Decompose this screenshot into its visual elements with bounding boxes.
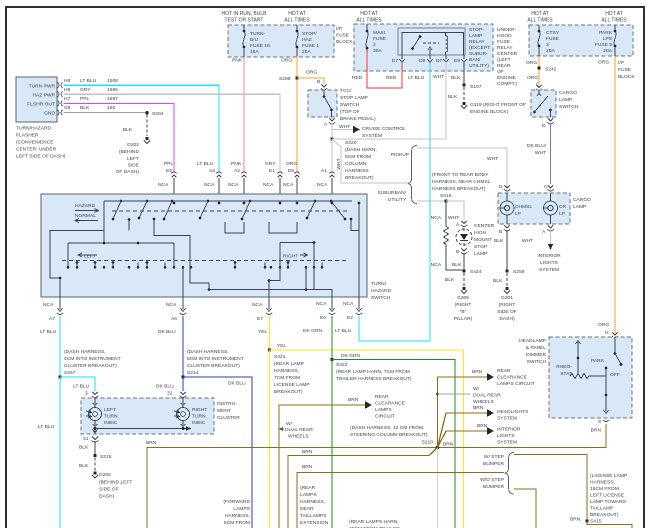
- wire BLK lamp B to S424: [463, 253, 465, 271]
- svg-text:RIGHT: RIGHT: [283, 254, 298, 260]
- I/P fuse block box (left): [228, 25, 334, 57]
- switch top connector A3: [197, 161, 222, 203]
- headlamp switch rheostat arm: [576, 341, 581, 375]
- svg-text:REAR: REAR: [497, 63, 511, 69]
- instrument cluster label: [217, 401, 240, 421]
- wire WHT S220 down to switch pin A1: [331, 139, 333, 173]
- svg-text:CENTER: CENTER: [497, 51, 518, 57]
- connector B of center lamp: [461, 249, 467, 255]
- annotation w/ dual rear wheels left: [285, 421, 313, 440]
- svg-text:(BEHIND: (BEHIND: [119, 149, 140, 155]
- svg-text:E2: E2: [347, 315, 353, 321]
- wire DK BLU A6 to S214: [182, 316, 184, 377]
- svg-text:PPL: PPL: [80, 96, 90, 102]
- svg-text:31: 31: [83, 436, 89, 442]
- svg-text:S215: S215: [100, 454, 112, 460]
- header HOT IN RUN label: [222, 11, 628, 24]
- stop lamp relay U1: [398, 28, 465, 55]
- svg-text:CENTER: CENTER: [474, 223, 495, 229]
- svg-text:SYSTEM: SYSTEM: [362, 133, 382, 139]
- hazard direction arrow: [75, 209, 99, 213]
- svg-text:BLK: BLK: [448, 94, 458, 100]
- svg-text:BUMPER: BUMPER: [483, 461, 504, 467]
- node S215: [93, 454, 96, 457]
- svg-text:(REAR LAMP: (REAR LAMP: [274, 361, 304, 367]
- svg-text:LT BLU: LT BLU: [197, 161, 214, 167]
- svg-text:BRN: BRN: [477, 423, 488, 429]
- wire BRN from S415 to license lamps: [587, 521, 632, 528]
- svg-text:WHT: WHT: [522, 238, 533, 244]
- switch internal contact stubs: [76, 261, 322, 267]
- cargo lamp switch: [531, 90, 556, 117]
- switch bottom pin A6: [158, 297, 186, 335]
- svg-text:NCA: NCA: [43, 302, 54, 308]
- svg-text:SIDE OF: SIDE OF: [99, 487, 119, 493]
- label S422: [336, 362, 412, 382]
- svg-text:NCA: NCA: [316, 301, 327, 307]
- svg-text:HOOD: HOOD: [497, 33, 512, 39]
- flasher label: [16, 126, 66, 160]
- svg-text:S424: S424: [470, 269, 482, 275]
- svg-text:B: B: [499, 229, 502, 235]
- switch top connector E1: [263, 161, 283, 203]
- ground G202 lower: [93, 471, 96, 474]
- svg-text:G202: G202: [127, 142, 139, 148]
- switch bottom pin E7: [252, 297, 272, 335]
- svg-text:LT BLU: LT BLU: [335, 328, 352, 334]
- wire BLK dashed to G202: [146, 115, 148, 137]
- label dash harness S267: [64, 349, 121, 376]
- svg-text:S421: S421: [274, 354, 286, 360]
- wire YEL down: [269, 350, 271, 528]
- svg-text:NCA: NCA: [252, 302, 263, 308]
- turn/hazard switch assembly box: [41, 194, 367, 297]
- svg-text:ALL TIMES: ALL TIMES: [527, 18, 553, 24]
- svg-text:LIGHTS: LIGHTS: [497, 433, 515, 439]
- svg-text:CR: CR: [559, 204, 567, 210]
- svg-text:(FORWARD: (FORWARD: [223, 499, 250, 505]
- lamp CHMSL LP: [500, 201, 514, 215]
- switch internal blade 2: [138, 200, 149, 220]
- svg-text:(TOP OF: (TOP OF: [340, 109, 360, 115]
- turn/hazard switch label: [371, 281, 392, 301]
- svg-text:YEL: YEL: [277, 343, 287, 349]
- svg-text:RELAY: RELAY: [469, 39, 485, 45]
- svg-text:CLUSTER BREAKOUT): CLUSTER BREAKOUT): [187, 363, 240, 369]
- svg-text:WHT: WHT: [433, 74, 444, 80]
- svg-text:D9: D9: [419, 58, 426, 64]
- svg-text:15CM FROM: 15CM FROM: [590, 486, 619, 492]
- svg-text:INDIC: INDIC: [104, 420, 118, 426]
- svg-text:STOP LAMP: STOP LAMP: [340, 95, 368, 101]
- connector S below headlamp switch: [603, 420, 609, 422]
- svg-text:PNK: PNK: [232, 58, 243, 64]
- wire DK BLU to cluster pin 32: [182, 377, 184, 391]
- svg-text:W/ STEP: W/ STEP: [484, 454, 504, 460]
- svg-text:7CM FROM: 7CM FROM: [274, 375, 300, 381]
- node S210: [436, 446, 440, 450]
- svg-text:DK BLU: DK BLU: [156, 384, 174, 390]
- svg-text:(REAR LAMPS HARN,: (REAR LAMPS HARN,: [349, 519, 399, 525]
- underhood fuse relay center box: [354, 24, 493, 71]
- svg-text:CARGO: CARGO: [573, 197, 591, 203]
- wire PPL flasher to E9: [64, 103, 175, 172]
- svg-text:HARNESS,: HARNESS,: [274, 368, 299, 374]
- wire BRN w/step bumper to S415: [514, 455, 587, 522]
- svg-text:S299: S299: [279, 76, 291, 82]
- wire LT BLU A7 to S267: [59, 316, 61, 377]
- svg-text:HARNESS,: HARNESS,: [225, 513, 250, 519]
- wire BRN S210 branch to rear lamps harness: [288, 448, 438, 528]
- svg-text:BLK: BLK: [79, 445, 89, 451]
- svg-text:BLK: BLK: [123, 127, 133, 133]
- svg-text:32: 32: [167, 391, 173, 397]
- svg-text:RHEO-: RHEO-: [556, 364, 572, 370]
- fuse F1 STOP/HAZ: [296, 25, 320, 56]
- wire BLK relay E9 to S107: [463, 63, 465, 85]
- svg-text:COMPT.): COMPT.): [497, 81, 517, 87]
- node S415: [585, 519, 588, 522]
- svg-text:EXTENSION: EXTENSION: [300, 520, 329, 526]
- svg-text:S242: S242: [545, 67, 557, 73]
- switch internal right bus: [280, 243, 314, 268]
- svg-text:G202: G202: [99, 472, 111, 478]
- wire ORG from CTSY fuse: [538, 56, 540, 84]
- svg-text:OF DASH): OF DASH): [116, 169, 140, 175]
- svg-text:20A: 20A: [603, 48, 612, 54]
- svg-text:W/: W/: [473, 386, 480, 392]
- svg-text:PILLAR): PILLAR): [454, 316, 473, 322]
- connector cluster pin 3: [92, 392, 98, 398]
- svg-text:I/P: I/P: [618, 60, 624, 66]
- svg-text:ORG: ORG: [286, 161, 297, 167]
- svg-text:G305: G305: [457, 295, 469, 301]
- svg-text:(CONVENIENCE: (CONVENIENCE: [16, 140, 54, 146]
- svg-text:BRN: BRN: [146, 440, 157, 446]
- switch pin contact dots: [173, 202, 334, 205]
- svg-text:SIDE OF: SIDE OF: [497, 309, 517, 315]
- svg-text:ORG: ORG: [306, 70, 317, 76]
- switch internal A6 drop: [182, 267, 184, 297]
- pin H9 connector: [58, 83, 63, 89]
- svg-text:SYSTEM: SYSTEM: [497, 440, 517, 446]
- wire BRN rear clearance left riser: [279, 405, 366, 528]
- switch internal blade 5: [241, 200, 252, 221]
- svg-text:& PANEL: & PANEL: [526, 345, 547, 351]
- switch internal blade 4: [199, 200, 210, 220]
- svg-text:LT BLU: LT BLU: [80, 78, 97, 84]
- svg-text:BLK: BLK: [445, 277, 455, 283]
- connector cluster pin 32: [180, 392, 186, 398]
- switch internal link 129: [128, 220, 130, 231]
- svg-text:INTERIOR: INTERIOR: [537, 253, 561, 259]
- svg-text:HAZ PWR: HAZ PWR: [32, 93, 55, 99]
- label S210: [350, 425, 433, 446]
- relay pin arrows E7 D9 D7 E9: [400, 55, 467, 63]
- svg-text:B: B: [317, 79, 320, 85]
- svg-text:A1: A1: [321, 168, 327, 174]
- svg-text:TRAILER HARNESS BREAKOUT): TRAILER HARNESS BREAKOUT): [336, 376, 412, 382]
- wire labels row H7: [64, 96, 118, 102]
- svg-text:UTILITY): UTILITY): [469, 63, 489, 69]
- lamp CR LP: [544, 201, 558, 215]
- svg-text:LT BLU: LT BLU: [73, 384, 90, 390]
- svg-text:D7: D7: [436, 58, 443, 64]
- svg-text:ALL TIMES: ALL TIMES: [601, 18, 627, 24]
- svg-text:15A: 15A: [250, 49, 259, 55]
- svg-text:WHEELS: WHEELS: [473, 399, 494, 405]
- svg-text:RIGHT: RIGHT: [192, 407, 207, 413]
- wire thin lead below S210: [437, 448, 439, 528]
- svg-text:B/U: B/U: [250, 37, 259, 43]
- svg-text:S419: S419: [440, 193, 452, 199]
- svg-text:COLUMN: COLUMN: [345, 161, 367, 167]
- label dash harness S214: [187, 349, 244, 376]
- svg-text:H: H: [605, 330, 609, 336]
- svg-text:BRN: BRN: [473, 405, 484, 411]
- fuse F16 TURN-B/U: [243, 25, 270, 57]
- wire BLK dashed to G202: [94, 458, 96, 471]
- svg-text:LT BLU: LT BLU: [38, 424, 55, 430]
- svg-text:WHT: WHT: [535, 150, 546, 156]
- svg-text:YEL: YEL: [258, 329, 268, 335]
- svg-text:(EXCEPT: (EXCEPT: [469, 45, 490, 51]
- svg-text:PNK: PNK: [231, 161, 242, 167]
- svg-text:BLK: BLK: [451, 75, 461, 81]
- svg-text:SYSTEM: SYSTEM: [497, 416, 517, 422]
- node S214: [181, 375, 184, 378]
- instrument cluster box: [81, 398, 214, 434]
- svg-text:RELAY: RELAY: [497, 45, 513, 51]
- svg-text:150: 150: [107, 105, 115, 111]
- wire WHT S419 to CHMSL A: [446, 201, 464, 220]
- switch bottom pin E6: [303, 297, 335, 334]
- svg-text:ORG: ORG: [281, 58, 292, 64]
- label rear lamps harn 25cm: [349, 519, 400, 528]
- label rear lamps harness near taillamps: [300, 485, 329, 528]
- svg-text:SUBUR-: SUBUR-: [469, 51, 488, 57]
- svg-text:LAMP TOWARD: LAMP TOWARD: [590, 499, 626, 505]
- svg-text:S107: S107: [470, 84, 482, 90]
- TCC stop lamp switch: [308, 90, 337, 117]
- svg-text:PICKUP: PICKUP: [391, 152, 409, 158]
- svg-text:DUAL REAR: DUAL REAR: [285, 427, 313, 433]
- svg-text:E7: E7: [257, 316, 263, 322]
- svg-text:NCA: NCA: [343, 301, 354, 307]
- svg-text:FUSE: FUSE: [546, 36, 560, 42]
- svg-text:FLASHER: FLASHER: [16, 133, 39, 139]
- svg-text:BLK: BLK: [79, 463, 89, 469]
- svg-text:D: D: [542, 123, 546, 129]
- wire LT BLU relay D9 down: [429, 63, 431, 341]
- svg-text:ORG: ORG: [598, 60, 609, 66]
- svg-text:BREAKOUT): BREAKOUT): [590, 512, 619, 518]
- svg-text:LIGHTS: LIGHTS: [540, 260, 558, 266]
- svg-text:(LEFT: (LEFT: [497, 57, 511, 63]
- svg-text:OFF: OFF: [610, 372, 620, 378]
- svg-text:GND: GND: [44, 111, 55, 117]
- svg-text:W/: W/: [286, 421, 293, 427]
- svg-text:3: 3: [85, 391, 88, 397]
- svg-text:(REAR LAMP HARN, 7CM FROM: (REAR LAMP HARN, 7CM FROM: [336, 369, 410, 375]
- switch internal E7 drop: [269, 267, 280, 297]
- switch internal mid routing: [154, 219, 209, 290]
- svg-text:8CM INTO INSTRUMENT: 8CM INTO INSTRUMENT: [187, 356, 244, 362]
- svg-text:WHT: WHT: [448, 215, 459, 221]
- svg-text:(LICENSE LAMP: (LICENSE LAMP: [590, 473, 627, 479]
- svg-text:LT BLU: LT BLU: [40, 329, 57, 335]
- svg-text:MENT: MENT: [217, 408, 231, 414]
- svg-text:E6: E6: [320, 315, 326, 321]
- svg-text:SWITCH: SWITCH: [340, 102, 360, 108]
- svg-text:BRAKE PEDAL): BRAKE PEDAL): [340, 116, 376, 122]
- svg-text:BRN: BRN: [472, 369, 483, 375]
- svg-text:CHMSL: CHMSL: [515, 204, 532, 210]
- svg-text:NCA: NCA: [263, 182, 274, 188]
- wire RED maxi fuse to relay E7: [367, 51, 402, 88]
- svg-text:LP: LP: [515, 211, 521, 217]
- switch internal risers right: [306, 267, 314, 289]
- wire BLK flasher to S204: [64, 112, 148, 114]
- svg-text:G201: G201: [501, 295, 513, 301]
- svg-text:HARNESS,: HARNESS,: [590, 480, 615, 486]
- label license lamp harness S415: [590, 473, 627, 525]
- svg-text:LEFT: LEFT: [104, 407, 116, 413]
- svg-text:LAMPS: LAMPS: [300, 492, 317, 498]
- wire BRN S210 to headlights system: [438, 413, 489, 448]
- svg-text:I/P: I/P: [336, 26, 342, 32]
- node S424: [462, 269, 465, 272]
- node S421: [268, 348, 271, 351]
- svg-text:HIGH: HIGH: [474, 230, 487, 236]
- svg-text:BAN/: BAN/: [469, 57, 481, 63]
- svg-text:DK BLU/: DK BLU/: [527, 143, 547, 149]
- svg-text:SWITCH: SWITCH: [559, 104, 579, 110]
- svg-text:G119 (RIGHT FRONT OF: G119 (RIGHT FRONT OF: [470, 102, 526, 108]
- svg-text:DK BLU: DK BLU: [158, 329, 176, 335]
- svg-text:BLK: BLK: [80, 105, 90, 111]
- wire labels row H8: [64, 87, 118, 93]
- rheostat resistor: [570, 374, 606, 379]
- node S259: [505, 269, 508, 272]
- wire BLK dashed to G305: [463, 273, 465, 286]
- svg-text:PPL: PPL: [164, 161, 174, 167]
- switch internal dashed coupler row 2: [62, 260, 348, 262]
- svg-text:DK BLU: DK BLU: [228, 381, 246, 387]
- svg-text:HOT AT: HOT AT: [605, 11, 623, 17]
- brace pickup/suburban: [408, 146, 418, 204]
- svg-text:HOT IN RUN, BULB: HOT IN RUN, BULB: [222, 11, 268, 17]
- svg-text:(FRONT TO REAR BODY: (FRONT TO REAR BODY: [432, 172, 489, 178]
- svg-text:SWITCH: SWITCH: [371, 295, 391, 301]
- svg-text:MOUNT: MOUNT: [474, 237, 492, 243]
- svg-text:TAILLAMPS: TAILLAMPS: [300, 513, 327, 519]
- switch internal riser x104: [103, 201, 105, 243]
- fuse F3 CTSY: [538, 25, 560, 56]
- svg-text:INSTRU-: INSTRU-: [217, 401, 237, 407]
- svg-text:CIRCUIT: CIRCUIT: [375, 414, 395, 420]
- connector C cargo switch: [536, 85, 542, 91]
- svg-text:(DASH HARNESS,: (DASH HARNESS,: [64, 349, 106, 355]
- switch top connector E8: [283, 161, 300, 203]
- svg-text:STOP-: STOP-: [469, 27, 484, 33]
- svg-text:5CM FROM: 5CM FROM: [224, 520, 250, 526]
- svg-text:BREAKOUT): BREAKOUT): [274, 389, 303, 395]
- svg-text:LP: LP: [559, 211, 565, 217]
- svg-text:H8: H8: [64, 87, 71, 93]
- svg-text:DASH): DASH): [499, 316, 515, 322]
- switch internal blade 1: [112, 200, 123, 221]
- wire WHT to interior lights system: [550, 230, 552, 244]
- svg-text:GRY: GRY: [80, 87, 91, 93]
- svg-text:LEFT LICENSE: LEFT LICENSE: [590, 493, 625, 499]
- switch internal blade 6: [306, 200, 317, 220]
- svg-text:ORG: ORG: [526, 60, 537, 66]
- svg-text:GRY: GRY: [265, 161, 276, 167]
- wire LT BLU flasher to A3: [64, 85, 220, 172]
- svg-text:(DASH HARNESS, 12 CM FROM: (DASH HARNESS, 12 CM FROM: [350, 425, 423, 431]
- connector A of TCC switch: [329, 119, 335, 125]
- svg-text:TURN/: TURN/: [371, 281, 387, 287]
- svg-text:NEAR: NEAR: [300, 506, 314, 512]
- svg-text:BRN: BRN: [570, 517, 581, 523]
- svg-text:20A: 20A: [546, 48, 555, 54]
- node S422: [330, 358, 333, 361]
- cluster internal ground link: [95, 421, 188, 429]
- switch internal U link 2: [269, 222, 297, 233]
- svg-text:LAMP: LAMP: [474, 251, 487, 257]
- switch internal dashed coupler row 1: [112, 210, 348, 212]
- wire DK BLU branch right and down: [183, 377, 252, 528]
- svg-text:CLUSTER: CLUSTER: [217, 415, 240, 421]
- svg-text:BLK: BLK: [493, 278, 503, 284]
- svg-text:S415: S415: [590, 519, 602, 525]
- svg-text:REAR: REAR: [497, 368, 511, 374]
- svg-text:1508: 1508: [107, 78, 118, 84]
- node S107: [462, 83, 465, 86]
- switch internal hazard bus: [104, 200, 352, 202]
- svg-text:LAMPS: LAMPS: [375, 407, 392, 413]
- connector B below CHMSL LP: [504, 226, 510, 232]
- node S242: [537, 66, 540, 69]
- switch bottom pin A7: [40, 297, 63, 335]
- wire BRN main bus from cluster area to headlamp switch: [147, 424, 606, 528]
- svg-text:A2: A2: [234, 168, 240, 174]
- left arrow LEFT: [78, 253, 97, 257]
- svg-text:TCC/: TCC/: [340, 88, 352, 94]
- svg-text:TURN PWR: TURN PWR: [29, 84, 56, 90]
- svg-text:OF: OF: [497, 69, 504, 75]
- svg-text:FUSE: FUSE: [497, 39, 511, 45]
- svg-text:CARGO: CARGO: [559, 90, 577, 96]
- annotation w/ dual rear wheels right: [436, 393, 439, 396]
- wire WHT routing to brace: [332, 139, 406, 183]
- svg-text:CLEARANCE: CLEARANCE: [375, 401, 406, 407]
- svg-text:LEFT: LEFT: [84, 254, 96, 260]
- svg-text:DK GRN: DK GRN: [341, 353, 360, 359]
- svg-text:DASH): DASH): [99, 494, 115, 500]
- svg-text:A6: A6: [171, 316, 177, 322]
- svg-text:A3: A3: [209, 168, 215, 174]
- svg-text:PARK: PARK: [599, 30, 613, 36]
- svg-text:NCA: NCA: [431, 262, 442, 268]
- label front to rear body harness S419: [432, 172, 491, 199]
- svg-text:SUBURBAN/: SUBURBAN/: [377, 190, 406, 196]
- svg-text:INTERIOR: INTERIOR: [497, 427, 521, 433]
- svg-text:"B": "B": [460, 309, 467, 315]
- wire DK GRN E6 to S422: [331, 316, 333, 360]
- svg-text:E7: E7: [392, 58, 398, 64]
